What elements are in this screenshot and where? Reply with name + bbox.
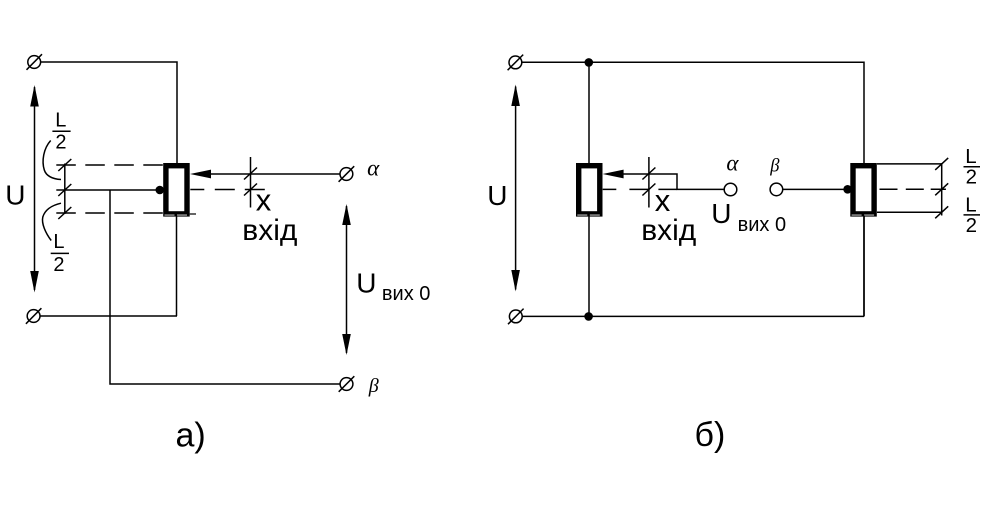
junction dot wiper (б)	[843, 185, 852, 194]
svg-text:β: β	[769, 156, 780, 176]
wire R2 bottom to rail (б)	[588, 216, 590, 317]
svg-text:2: 2	[53, 254, 64, 276]
junction dot bottom (б)	[584, 312, 593, 321]
terminal input bottom (б)	[508, 309, 524, 325]
label U vih 0 (а)	[356, 268, 430, 305]
leader curve upper (а)	[43, 141, 61, 180]
wire wiper to beta (а)	[110, 190, 340, 384]
svg-text:2: 2	[55, 132, 66, 154]
svg-text:x: x	[256, 183, 272, 218]
dashed line top (а)	[56, 164, 163, 166]
wiper wire middle (а)	[56, 189, 160, 191]
svg-text:U: U	[5, 180, 25, 211]
svg-text:U: U	[711, 198, 731, 229]
potentiometer R2 (б)	[577, 166, 602, 215]
junction dot top (б)	[585, 58, 594, 67]
dimension arrow U vih 0 (а)	[342, 204, 351, 355]
contact beta (б)	[770, 183, 783, 196]
wiper arrow (б)	[603, 170, 725, 190]
label L/2 upper (б)	[965, 145, 977, 188]
dimension line L ticks (а)	[58, 159, 71, 219]
wire top rail (б)	[522, 62, 864, 316]
dashed line bottom (а)	[56, 212, 163, 214]
svg-text:α: α	[367, 155, 380, 180]
terminal beta (а)	[339, 376, 355, 392]
dashed wiper offset line (б)	[603, 188, 677, 190]
svg-text:x: x	[655, 183, 671, 218]
dashed line middle right (б)	[880, 188, 947, 190]
wire bottom (а)	[40, 315, 177, 317]
terminal alpha (а)	[339, 166, 355, 182]
junction dot wiper (а)	[156, 186, 165, 195]
svg-text:а): а)	[176, 417, 206, 455]
svg-text:α: α	[726, 151, 739, 176]
svg-text:вхід: вхід	[641, 214, 696, 247]
leader curve lower (а)	[42, 203, 61, 240]
terminal input top (а)	[27, 54, 43, 70]
wire resistor bottom to rail (а)	[176, 216, 178, 316]
label L/2 upper (а)	[55, 110, 66, 154]
svg-text:β: β	[368, 375, 379, 397]
terminal input bottom (а)	[26, 308, 42, 324]
potentiometer R3 (б)	[852, 166, 877, 215]
svg-text:вих 0: вих 0	[738, 214, 786, 236]
dimension line L ticks (б)	[935, 158, 948, 218]
wire top to R2 (б)	[588, 62, 590, 163]
svg-text:вих 0: вих 0	[382, 283, 430, 305]
potentiometer R1 (а)	[165, 166, 197, 215]
dimension arrow U (б)	[511, 85, 520, 292]
dimension arrow U (а)	[30, 85, 39, 293]
svg-text:L: L	[53, 231, 64, 253]
svg-text:L: L	[965, 193, 976, 216]
svg-text:U: U	[356, 268, 376, 299]
svg-text:б): б)	[695, 416, 726, 454]
wire R3 bottom to rail (б)	[863, 216, 865, 317]
svg-text:2: 2	[966, 165, 977, 188]
dimension line x ticks (а)	[244, 157, 257, 208]
label L/2 lower (б)	[965, 193, 977, 237]
wiper arrow (а)	[190, 170, 340, 179]
svg-text:U: U	[487, 180, 507, 211]
label L/2 lower (а)	[53, 231, 64, 276]
wire beta to R3 (б)	[783, 188, 850, 190]
dashed wiper offset line (а)	[190, 189, 264, 191]
solid line top right (б)	[877, 163, 942, 165]
solid line bottom right (б)	[877, 211, 942, 213]
terminal input top (б)	[508, 55, 524, 71]
wire top (а)	[41, 62, 177, 164]
svg-text:вхід: вхід	[242, 214, 297, 247]
dimension line x ticks (б)	[642, 157, 655, 208]
contact alpha (б)	[724, 183, 737, 196]
label U vih 0 (б)	[711, 198, 786, 236]
svg-text:L: L	[55, 110, 66, 132]
svg-text:2: 2	[966, 214, 977, 237]
wire bottom rail (б)	[522, 315, 864, 317]
